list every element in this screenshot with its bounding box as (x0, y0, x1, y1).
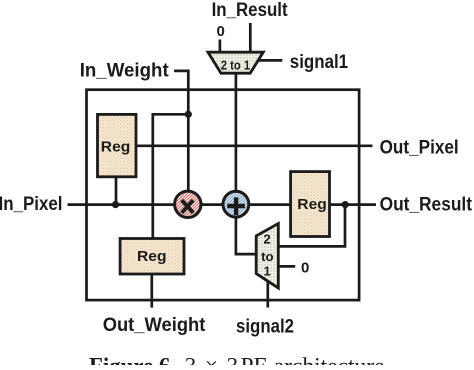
wire Out_Weight (150, 275, 153, 308)
wire 0 constant into mux M1 (219, 40, 222, 55)
svg-text:3: 3 (227, 354, 239, 366)
multiplier X (175, 191, 201, 217)
svg-text:signal2: signal2 (236, 317, 294, 338)
svg-text:0: 0 (217, 23, 225, 40)
svg-text:Out_Weight: Out_Weight (103, 315, 206, 336)
svg-text:Reg: Reg (297, 196, 327, 213)
svg-text:3: 3 (185, 354, 197, 366)
svg-text:In_Weight: In_Weight (80, 60, 170, 81)
svg-text:Reg: Reg (101, 139, 131, 156)
svg-text:0: 0 (301, 260, 309, 277)
svg-text:Out_Pixel: Out_Pixel (380, 138, 459, 159)
junction Out_Result feedback node (342, 201, 349, 208)
svg-text:Figure 6.: Figure 6. (89, 354, 176, 366)
svg-text:1: 1 (264, 263, 271, 278)
junction In_Pixel to Reg1 (112, 201, 119, 208)
svg-text:In_Pixel: In_Pixel (0, 194, 63, 215)
wire mux M2 output to adder (236, 216, 257, 254)
svg-text:to: to (261, 249, 274, 264)
svg-text:2 to 1: 2 to 1 (221, 58, 251, 73)
svg-text:signal1: signal1 (290, 52, 349, 73)
wire Reg1 input (115, 177, 118, 205)
wire signal1 (258, 59, 282, 62)
register Reg1 (pixel) (98, 114, 137, 176)
PE boundary box (87, 90, 360, 300)
svg-text:In_Result: In_Result (212, 0, 289, 21)
svg-text:2: 2 (264, 231, 271, 246)
wire In_Result (249, 23, 252, 54)
register Reg3 (weight) (120, 239, 184, 275)
mux M1 (2 to 1) (208, 52, 263, 73)
wire Out_Pixel (137, 144, 373, 147)
junction on In_Weight wire (185, 111, 192, 118)
mux M2 (2 to 1) (256, 224, 278, 289)
wire 0 constant into mux M2 (278, 265, 295, 268)
adder + (223, 191, 249, 217)
register Reg2 (result) (291, 172, 330, 237)
wire signal2 (266, 280, 269, 308)
wire mux M1 output to adder (235, 73, 238, 193)
wire In_Pixel datapath to Out_Result (68, 203, 377, 206)
svg-text:Reg: Reg (137, 248, 167, 265)
wire In_Weight (174, 71, 188, 193)
svg-text:×: × (205, 354, 218, 366)
svg-text:Out_Result: Out_Result (380, 194, 473, 215)
wire feedback from Out_Result node to mux M2 (278, 205, 345, 247)
svg-text:PE architecture: PE architecture (241, 354, 385, 366)
wire weight branch to Reg3 (153, 114, 189, 238)
